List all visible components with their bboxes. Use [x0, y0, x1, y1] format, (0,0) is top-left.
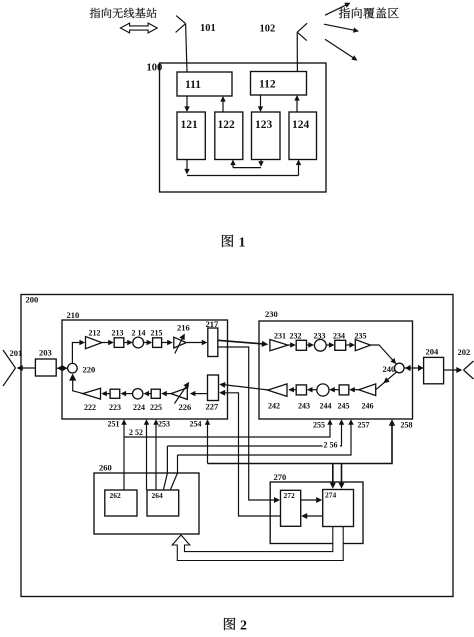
svg-text:258: 258: [401, 421, 413, 430]
svg-text:223: 223: [109, 403, 121, 412]
wire 226 to 225: [165, 393, 172, 395]
svg-text:222: 222: [84, 403, 96, 412]
wire 217 to amp 231 (into box 230): [218, 340, 266, 344]
control wire L3 (264 to 230): [171, 455, 178, 490]
svg-text:224: 224: [133, 403, 145, 412]
svg-text:235: 235: [355, 332, 367, 341]
box 213: [114, 338, 124, 348]
figure-1 header text (to wireless base station): [90, 8, 100, 18]
control wire 254 (into 210, joins L4): [207, 422, 209, 464]
wire 215 to 216: [162, 342, 170, 344]
summing node 220: [68, 363, 78, 373]
control wire 253 (into 210, from 264): [155, 422, 157, 491]
wire 212 to 213: [102, 342, 110, 344]
control drop into 274 (right): [341, 464, 343, 486]
wire node 240 to 246: [376, 372, 397, 390]
wire 124 to 112: [296, 99, 298, 112]
caption fig 1: [222, 235, 233, 247]
control wire 252 (into 210, from 264): [146, 422, 148, 491]
svg-text:240: 240: [383, 364, 396, 374]
amp 235: [355, 340, 370, 351]
box 100 (repeater unit): [160, 63, 327, 192]
control wire L2 256 (264 to 230 and 274): [164, 446, 168, 490]
svg-text:124: 124: [292, 119, 310, 131]
wire 222 to node 220: [73, 376, 83, 394]
control wire L1 (264-group to 230): [124, 422, 330, 438]
amp 242: [268, 384, 287, 397]
antenna 201: [3, 350, 16, 368]
svg-text:270: 270: [274, 472, 287, 482]
svg-text:246: 246: [362, 402, 374, 411]
svg-text:215: 215: [151, 329, 163, 338]
svg-text:216: 216: [177, 323, 190, 333]
wire 216 to 217: [187, 342, 204, 344]
wire 224 to 223: [124, 393, 133, 395]
wire 214 to 215: [144, 342, 149, 344]
hollow bus 274 to 260: [172, 526, 343, 561]
svg-text:100: 100: [147, 63, 163, 74]
wire 243 to 242: [292, 389, 297, 391]
svg-text:102: 102: [260, 24, 276, 35]
svg-text:202: 202: [458, 347, 471, 357]
wire 246 to 245: [352, 389, 359, 391]
wire 223 to 222: [105, 393, 111, 395]
svg-text:203: 203: [39, 348, 52, 358]
wire 111 to 121: [186, 96, 188, 108]
svg-text:2 56: 2 56: [324, 441, 338, 450]
box 215: [153, 338, 162, 348]
antenna 202: [464, 361, 474, 370]
amp 246: [359, 384, 376, 396]
svg-text:200: 200: [26, 295, 39, 305]
coverage beam arrow 3: [325, 39, 356, 59]
antenna 102: [297, 23, 307, 32]
variable attenuator 216: [174, 337, 187, 348]
box 274: [323, 490, 354, 527]
wire 122 to 111: [222, 100, 224, 112]
box 122: [215, 112, 243, 160]
summing node 240: [395, 363, 405, 373]
figure-1 header text (to coverage area): [339, 7, 350, 18]
svg-text:212: 212: [89, 329, 101, 338]
svg-text:225: 225: [150, 403, 162, 412]
coverage beam arrow 2: [324, 24, 357, 31]
box 217 (coupler): [208, 328, 218, 357]
svg-text:234: 234: [333, 332, 345, 341]
wire 272 to 227: [222, 393, 281, 516]
svg-text:123: 123: [255, 119, 273, 131]
wire 240-204 bidirectional: [404, 367, 424, 369]
svg-text:2 14: 2 14: [132, 329, 146, 338]
wire 272 to 274: [301, 499, 319, 501]
box 124: [289, 112, 317, 160]
box 210 (forward path unit): [62, 320, 228, 419]
box 245: [339, 385, 349, 395]
amp 212: [86, 337, 102, 349]
caption fig 2: [224, 618, 235, 630]
wire 274 to 272: [304, 515, 323, 517]
box 112: [251, 72, 307, 96]
wire 203-220 bidirectional: [56, 367, 67, 369]
box 121: [177, 112, 205, 160]
control wire 251 (into 210, from 262): [123, 422, 125, 491]
svg-text:243: 243: [298, 402, 310, 411]
wire 203 to antenna 201: [18, 367, 35, 369]
svg-text:251: 251: [108, 420, 120, 429]
svg-text:1: 1: [239, 236, 246, 251]
box 243: [296, 385, 306, 395]
svg-text:253: 253: [158, 420, 170, 429]
svg-text:111: 111: [185, 79, 201, 91]
svg-text:210: 210: [67, 310, 80, 320]
wire 235 to node 240: [371, 345, 396, 364]
wire 213 to 214: [124, 342, 130, 344]
svg-text:2 52: 2 52: [129, 428, 143, 437]
svg-text:272: 272: [284, 491, 296, 500]
svg-text:220: 220: [83, 365, 96, 375]
box 272: [281, 490, 301, 526]
box 270 (processing unit): [270, 482, 363, 544]
svg-text:231: 231: [274, 332, 286, 341]
mixer 244: [317, 384, 329, 396]
box 230 (reverse path unit): [259, 321, 413, 419]
wire 123 to 122 (bottom bus): [260, 160, 262, 164]
wire 234 to 235: [346, 344, 352, 346]
box 262: [105, 490, 137, 516]
wire 244 to 243: [310, 389, 317, 391]
coverage beam arrow 1: [325, 4, 349, 15]
mixer 214: [133, 337, 144, 348]
svg-text:121: 121: [181, 119, 199, 131]
box 232: [296, 340, 306, 350]
box 203 (duplexer): [35, 359, 56, 376]
amp 231: [270, 340, 288, 351]
box 225: [151, 389, 160, 398]
wire 204 to antenna 202: [444, 369, 461, 371]
svg-text:242: 242: [268, 402, 280, 411]
svg-text:213: 213: [112, 329, 124, 338]
svg-text:257: 257: [358, 421, 370, 430]
svg-text:101: 101: [200, 23, 216, 34]
box 260 (detector unit): [94, 473, 199, 534]
antenna 101: [176, 16, 186, 24]
svg-text:262: 262: [110, 491, 122, 500]
box 204 (duplexer): [424, 357, 444, 383]
control wire L4 (254 line to 230): [208, 422, 393, 464]
svg-text:233: 233: [314, 332, 326, 341]
box 223: [110, 389, 120, 398]
label 256 backing: [323, 440, 341, 449]
box 123: [252, 112, 281, 160]
svg-text:254: 254: [190, 420, 202, 429]
svg-text:217: 217: [206, 319, 220, 329]
wire 232 to 233: [307, 344, 312, 346]
amp 222: [83, 388, 101, 399]
svg-text:2: 2: [240, 619, 247, 633]
wire 112 to 123: [260, 95, 262, 108]
wire 121 to 124 (bottom bus): [186, 160, 188, 171]
mixer 233: [314, 339, 326, 351]
svg-text:232: 232: [290, 332, 302, 341]
box 264: [147, 490, 179, 516]
box 200 (repeater system): [21, 295, 453, 597]
svg-text:260: 260: [99, 463, 112, 473]
svg-text:244: 244: [320, 402, 332, 411]
wire 217 tap to 272: [218, 347, 278, 500]
mixer 224: [133, 389, 143, 399]
svg-text:245: 245: [338, 402, 350, 411]
svg-text:264: 264: [152, 491, 164, 500]
bidirectional hollow arrow (base station link): [120, 23, 157, 33]
wire 233 to 234: [326, 344, 331, 346]
svg-text:255: 255: [313, 421, 325, 430]
box 227 (coupler): [208, 375, 219, 401]
variable attenuator 226: [171, 388, 187, 400]
svg-text:226: 226: [179, 402, 192, 412]
svg-text:230: 230: [265, 309, 278, 319]
wire 231 to 232: [288, 344, 293, 346]
svg-text:274: 274: [325, 491, 337, 500]
wire 227 to 226: [193, 393, 208, 395]
wire 242 to 227: [221, 384, 268, 390]
wire node 220 to amp 212: [72, 343, 81, 364]
box 111: [177, 72, 232, 96]
control drop into 274 (from L4): [332, 464, 334, 486]
wire 225 to 224: [147, 393, 152, 395]
svg-text:112: 112: [259, 79, 276, 91]
svg-text:122: 122: [218, 119, 236, 131]
box 234: [335, 340, 346, 350]
wire 245 to 244: [332, 389, 339, 391]
svg-text:227: 227: [206, 402, 220, 412]
svg-text:204: 204: [426, 347, 440, 357]
svg-text:201: 201: [10, 348, 23, 358]
